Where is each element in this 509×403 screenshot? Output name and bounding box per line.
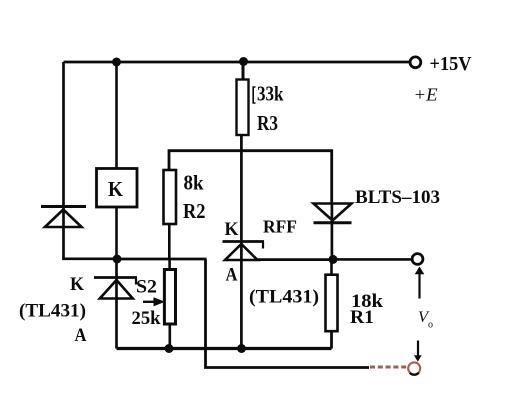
svg-text:+15V: +15V bbox=[430, 53, 473, 75]
svg-text:(TL431): (TL431) bbox=[19, 301, 86, 322]
wire left branch down and to mid rail bbox=[64, 62, 118, 259]
potentiometer 25k body bbox=[164, 270, 175, 325]
svg-text:RFF: RFF bbox=[263, 217, 297, 237]
wire mid rail left bbox=[117, 258, 207, 261]
svg-text:o: o bbox=[428, 320, 433, 331]
terminal Vo+ bbox=[412, 254, 423, 265]
TL431 center RFF: triangle bbox=[225, 244, 258, 260]
wire R2 bottom to rail bbox=[168, 224, 171, 259]
wire relay to mid rail bbox=[115, 207, 118, 259]
wire through BLTS-103 bbox=[331, 204, 334, 260]
arrow up (Vo+) bbox=[415, 267, 425, 275]
wire dashed segment to Vo- terminal bbox=[370, 366, 407, 369]
svg-text:K: K bbox=[70, 274, 84, 295]
svg-text:(TL431): (TL431) bbox=[249, 287, 319, 308]
wire bottom rail bbox=[117, 347, 332, 350]
resistor R3 body bbox=[237, 80, 249, 136]
svg-text:K: K bbox=[108, 177, 124, 201]
svg-text:33k: 33k bbox=[257, 82, 284, 106]
svg-text:8k: 8k bbox=[184, 171, 204, 195]
svg-text:BLTS–103: BLTS–103 bbox=[355, 187, 440, 208]
resistor R2 body bbox=[164, 170, 177, 224]
TL431 center RFF: cathode bar with reference hook bbox=[223, 240, 265, 243]
wire output junction to terminal bbox=[333, 258, 412, 261]
wire anode line to output junction bbox=[257, 258, 333, 261]
svg-text:R2: R2 bbox=[183, 199, 206, 223]
wire R3 top bbox=[242, 62, 245, 80]
svg-text:A: A bbox=[226, 265, 238, 286]
wire top supply rail bbox=[64, 61, 410, 64]
wire junction to R1 bbox=[330, 259, 333, 275]
terminal +15V bbox=[410, 57, 421, 68]
TL431 left: cathode and anode through-wire bbox=[115, 259, 118, 349]
TL431 left: cathode bar with reference hook bbox=[94, 276, 137, 279]
diode VD left: cathode bar bbox=[41, 205, 86, 208]
diode BLTS-103: triangle bbox=[314, 204, 352, 221]
wire pot bottom to bottom rail bbox=[169, 324, 172, 349]
wire rail to pot top bbox=[168, 259, 171, 270]
svg-text:K: K bbox=[225, 219, 239, 240]
svg-text:R3: R3 bbox=[257, 111, 278, 135]
diode VD left: triangle bbox=[45, 210, 82, 228]
svg-text:+E: +E bbox=[414, 85, 438, 105]
potentiometer wiper arrow bbox=[143, 301, 158, 303]
node junction dot (R3 branch / top rail) bbox=[239, 57, 248, 66]
node junction dot (pot / bottom rail) bbox=[165, 344, 174, 353]
svg-text:A: A bbox=[75, 325, 87, 346]
svg-text:S2: S2 bbox=[136, 277, 157, 298]
node junction dot (TL431 anode / bottom rail) bbox=[237, 344, 246, 353]
TL431 left: triangle bbox=[100, 280, 133, 299]
node junction dot (mid rail) bbox=[113, 255, 122, 264]
terminal Vo- bbox=[408, 362, 420, 374]
wire R3 down through RFF to bottom rail bbox=[240, 135, 243, 349]
wire R1 bottom to rail bbox=[330, 331, 333, 348]
wire relay branch down bbox=[115, 62, 118, 169]
arrow down (Vo-) bbox=[417, 341, 419, 356]
resistor R1 body bbox=[326, 275, 338, 332]
artifact mark left of 33k bbox=[253, 87, 255, 103]
diode BLTS-103: cathode bar bbox=[314, 221, 352, 224]
wire output return (down and right) bbox=[206, 259, 370, 368]
relay coil K box bbox=[97, 169, 138, 208]
svg-text:25k: 25k bbox=[132, 308, 161, 329]
node junction dot (output) bbox=[329, 255, 338, 264]
svg-text:R1: R1 bbox=[350, 307, 374, 328]
wire link R2 top to diode top bbox=[169, 151, 332, 204]
node junction dot (K branch / top rail) bbox=[112, 58, 121, 67]
